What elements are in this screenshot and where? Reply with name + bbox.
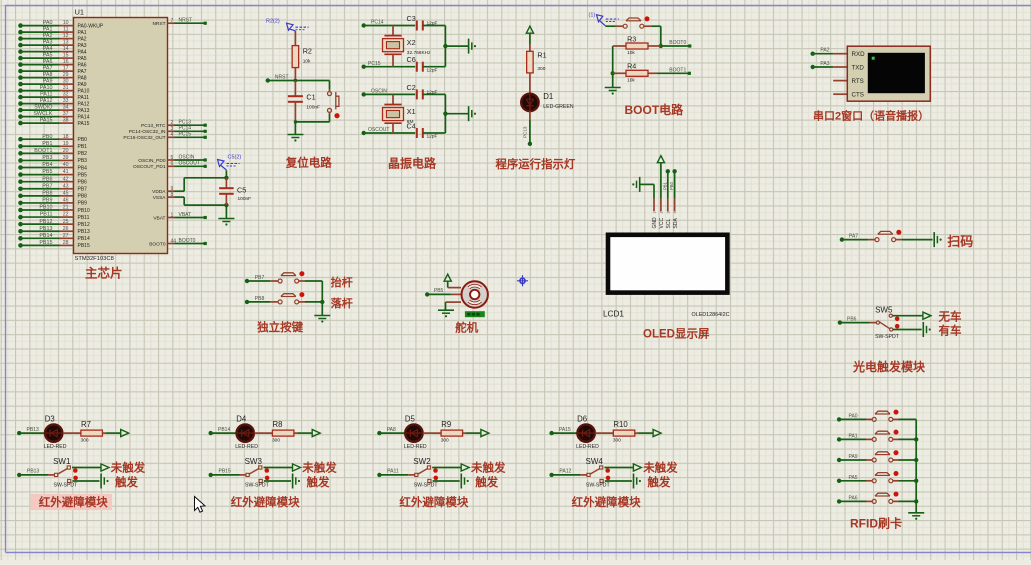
wire RFID PA0 to bus — [899, 418, 917, 420]
wire SW1 triggered — [72, 480, 99, 482]
svg-text:STM32F103C8: STM32F103C8 — [75, 256, 114, 262]
switch SW1 SW-SPDT — [48, 466, 78, 489]
U1 pin 6 OSCOUT_PD1 wire net OSCOUT — [133, 161, 207, 170]
U1 pin 5 OSCIN_PD0 wire net OSCIN — [138, 154, 207, 163]
wire C5 to ground — [225, 205, 227, 218]
svg-text:PC13_RTC: PC13_RTC — [141, 123, 166, 129]
wire D1 to PC13 with net label — [523, 120, 533, 146]
wire net PB14 to LED D4 — [209, 427, 237, 435]
power arrow R8 — [312, 430, 320, 437]
svg-text:1: 1 — [653, 211, 657, 213]
resistor R1 300 — [527, 44, 547, 94]
svg-text:13: 13 — [63, 40, 69, 46]
svg-text:PA6: PA6 — [43, 59, 53, 65]
svg-text:28: 28 — [63, 240, 69, 246]
wire RFID bus — [915, 419, 917, 512]
svg-text:PB8: PB8 — [42, 190, 52, 196]
junction RFID bus PA1 — [914, 437, 918, 441]
terminal cursor — [872, 57, 875, 60]
svg-text:RTS: RTS — [852, 78, 864, 85]
svg-text:PA8: PA8 — [43, 72, 53, 78]
push button RFID PA6 — [866, 492, 899, 504]
svg-text:SWCLK: SWCLK — [33, 111, 53, 117]
wire C3 to rail — [423, 25, 446, 27]
wire SW3 triggered — [264, 480, 291, 482]
svg-text:31: 31 — [63, 85, 69, 91]
svg-text:PA9: PA9 — [43, 79, 53, 85]
junction C1 bottom — [294, 120, 297, 123]
svg-text:OLED12864I2C: OLED12864I2C — [692, 312, 730, 318]
svg-text:19: 19 — [63, 141, 69, 147]
U1 pin 37 PA14 wire net SWCLK — [18, 111, 89, 120]
U1 pin 41 PB5 wire net PB5 — [18, 169, 87, 178]
wire R7 to power arrow — [102, 432, 120, 434]
wire RFID PA6 to bus — [899, 500, 917, 502]
junction node C5 bottom — [224, 203, 228, 207]
svg-text:D3: D3 — [45, 415, 55, 424]
svg-text:未触发: 未触发 — [110, 461, 146, 475]
U1 pin 12 PA2 wire net PA2 — [18, 33, 87, 42]
wire C2 to rail — [423, 93, 446, 95]
net label PC14 — [362, 20, 416, 28]
ground servo — [438, 309, 454, 311]
svg-text:PB13: PB13 — [27, 469, 39, 475]
capacitor C4 12pF — [407, 122, 438, 140]
U1 pin 31 PA10 wire net PA10 — [18, 85, 89, 94]
junction RFID bus PA5 — [914, 479, 918, 483]
svg-text:PB6: PB6 — [78, 179, 88, 185]
wire R10 to power arrow — [635, 432, 653, 434]
svg-text:14: 14 — [63, 46, 69, 52]
svg-text:光电触发模块: 光电触发模块 — [852, 359, 926, 374]
svg-text:R8: R8 — [273, 420, 283, 429]
svg-text:10k: 10k — [627, 77, 635, 83]
wire net PA7 — [840, 234, 869, 242]
svg-text:PA11: PA11 — [40, 92, 52, 98]
virtual terminal screen — [868, 53, 925, 93]
svg-text:PB14: PB14 — [78, 236, 90, 242]
svg-text:落杆: 落杆 — [331, 296, 353, 310]
wire OLED GND pin to ground — [640, 184, 654, 198]
mouse cursor — [195, 497, 206, 513]
svg-text:PA9: PA9 — [78, 82, 87, 88]
wire net PA6 RFID — [837, 495, 866, 503]
resistor R2 — [292, 46, 312, 68]
wire SW5 no-car to power arrow — [893, 315, 923, 317]
ground boot — [605, 87, 621, 89]
svg-text:PA3: PA3 — [43, 40, 53, 46]
U1 pin 33 PA12 wire net PA12 — [18, 98, 89, 107]
capacitor C6 12pF — [407, 55, 438, 73]
svg-text:PB0: PB0 — [78, 137, 88, 143]
wire OLED VCC pin — [660, 163, 662, 199]
junction RFID bus PA6 — [914, 499, 918, 503]
svg-text:VSSA: VSSA — [153, 195, 167, 201]
svg-text:PA11: PA11 — [387, 469, 399, 475]
svg-text:18: 18 — [63, 134, 69, 140]
svg-text:触发: 触发 — [646, 475, 670, 489]
svg-text:PA0: PA0 — [849, 413, 858, 419]
svg-text:PA7: PA7 — [43, 66, 53, 72]
wire C5 top stub — [225, 170, 227, 178]
wire net PA9 RFID — [837, 454, 866, 462]
svg-text:R10: R10 — [613, 420, 628, 429]
svg-text:PB14: PB14 — [218, 427, 230, 433]
U1 pin 19 PB1 wire net PB1 — [18, 141, 87, 150]
wire SW5 car to ground — [893, 329, 922, 331]
U1 pin 29 PA8 wire net PA8 — [18, 72, 87, 81]
svg-text:C5: C5 — [237, 186, 246, 195]
U1 pin 1 VBAT wire net VBAT — [153, 212, 206, 221]
svg-text:红外避障模块: 红外避障模块 — [39, 495, 108, 509]
ground RFID — [908, 512, 924, 514]
svg-text:PB1: PB1 — [662, 181, 667, 190]
wire net PA12 to SW4 — [549, 469, 580, 477]
svg-text:PA2: PA2 — [43, 33, 53, 39]
svg-text:PA3: PA3 — [78, 43, 87, 49]
wire VDDA to C5 — [175, 178, 227, 191]
wire net BOOT0 — [661, 40, 692, 48]
U1 pin 18 PB0 wire net PB0 — [18, 134, 87, 143]
svg-text:BOOT0: BOOT0 — [179, 238, 196, 244]
svg-text:PB14: PB14 — [39, 233, 52, 239]
svg-text:PC14: PC14 — [371, 20, 384, 26]
svg-text:PB4: PB4 — [78, 165, 88, 171]
svg-text:触发: 触发 — [474, 475, 498, 489]
U1 pin 8 VSSA wire — [153, 192, 175, 201]
svg-text:SW4: SW4 — [586, 457, 604, 466]
U1 pin 20 PB2 wire net BOOT1 — [18, 148, 87, 157]
resistor R10 300 — [613, 420, 635, 444]
svg-text:C5(2): C5(2) — [228, 155, 242, 161]
push button RFID PA9 — [866, 450, 899, 462]
ground car — [922, 322, 924, 337]
svg-text:R2(2): R2(2) — [266, 19, 280, 25]
U1 pin 11 PA1 wire net PA1 — [18, 27, 87, 36]
svg-text:PA13: PA13 — [78, 108, 90, 114]
svg-text:PB12: PB12 — [78, 222, 90, 228]
svg-text:OSCIN: OSCIN — [371, 89, 387, 95]
svg-text:PA3: PA3 — [820, 61, 829, 67]
ground left of OLED — [639, 177, 641, 192]
svg-text:独立按键: 独立按键 — [257, 320, 303, 334]
svg-text:RFID刷卡: RFID刷卡 — [850, 516, 902, 531]
power arrow above R1 — [526, 26, 533, 33]
svg-text:PA14: PA14 — [78, 114, 90, 120]
svg-text:BOOT1: BOOT1 — [34, 148, 52, 154]
svg-text:38: 38 — [63, 118, 69, 124]
svg-text:PA5: PA5 — [849, 475, 858, 481]
wire buttons rail — [321, 281, 323, 316]
svg-text:PA8: PA8 — [387, 427, 396, 433]
U1 pin 30 PA9 wire net PA9 — [18, 79, 87, 88]
U1 pin 34 PA13 wire net SWDIO — [18, 105, 89, 114]
svg-text:43: 43 — [63, 183, 69, 189]
wire net PB13 to LED D3 — [17, 427, 45, 435]
svg-text:PA15: PA15 — [78, 121, 90, 127]
junction rail X1 — [443, 112, 447, 116]
switch SW3 SW-SPDT — [240, 466, 270, 489]
wire servo to ground — [445, 302, 447, 310]
svg-text:SW5: SW5 — [875, 306, 893, 315]
svg-text:PA1: PA1 — [43, 27, 53, 33]
wire net PA2 — [811, 48, 834, 56]
junction BOOT0 — [659, 44, 663, 48]
servo display bar — [465, 311, 485, 317]
junction RFID bus PA9 — [914, 458, 918, 462]
svg-text:无车: 无车 — [938, 309, 962, 323]
svg-text:晶振电路: 晶振电路 — [388, 155, 437, 170]
svg-text:3: 3 — [666, 211, 670, 213]
svg-text:PB1: PB1 — [42, 141, 52, 147]
virtual terminal body — [847, 46, 930, 101]
svg-text:PB7: PB7 — [78, 187, 88, 193]
svg-text:LED-RED: LED-RED — [235, 444, 258, 450]
U1 pin 21 PB10 wire net PB10 — [18, 205, 90, 214]
svg-text:PB1: PB1 — [78, 144, 88, 150]
svg-text:32: 32 — [63, 92, 69, 98]
ground scan — [933, 232, 935, 247]
svg-text:串口2窗口（语音播报）: 串口2窗口（语音播报） — [813, 109, 929, 123]
svg-text:SW1: SW1 — [53, 457, 71, 466]
virtual terminal pin names — [852, 51, 866, 98]
svg-text:C1: C1 — [306, 93, 315, 102]
wire boot button to BOOT0 rail — [644, 26, 661, 46]
svg-text:12pF: 12pF — [427, 67, 438, 73]
svg-text:VCC: VCC — [659, 218, 665, 229]
wire net PB5 — [425, 288, 451, 296]
crystal X1 8M — [383, 94, 416, 133]
wire R9 to power arrow — [463, 432, 481, 434]
servo middle lead — [451, 293, 461, 295]
svg-text:C6: C6 — [407, 55, 416, 64]
U1 pin 7 NRST wire net NRST — [152, 18, 206, 27]
svg-text:抬杆: 抬杆 — [331, 275, 353, 289]
svg-text:PA12: PA12 — [559, 469, 571, 475]
svg-text:R9: R9 — [441, 420, 451, 429]
crystal X2 32.768KHz — [383, 26, 432, 67]
svg-text:SWDIO: SWDIO — [34, 105, 52, 111]
svg-text:OSCOUT_PD1: OSCOUT_PD1 — [133, 164, 166, 170]
U1 pin 42 PB6 wire net PB6 — [18, 176, 87, 185]
wire SW3 untriggered — [264, 467, 293, 469]
lead D4 to R8 — [254, 432, 272, 434]
svg-text:29: 29 — [63, 72, 69, 78]
wire scan button to ground — [902, 239, 933, 241]
svg-text:CTS: CTS — [852, 92, 864, 99]
svg-text:PA10: PA10 — [78, 88, 90, 94]
svg-text:20: 20 — [63, 148, 69, 154]
junction buttons rail — [320, 300, 324, 304]
U1 pin 27 PB14 wire net PB14 — [18, 233, 90, 242]
switch SW2 SW-SPDT — [408, 466, 438, 489]
svg-text:PA4: PA4 — [78, 49, 87, 55]
ground buttons — [314, 315, 330, 317]
wire C4 to rail — [423, 132, 446, 134]
svg-text:PA8: PA8 — [78, 75, 87, 81]
svg-text:PB7: PB7 — [255, 275, 265, 281]
push button scan — [868, 230, 902, 242]
U1 pin 9 VDDA wire — [152, 186, 174, 195]
resistor R9 300 — [441, 420, 463, 444]
wire button top — [329, 81, 331, 90]
LED D3 LED-RED — [44, 415, 67, 451]
svg-text:46: 46 — [63, 198, 69, 204]
svg-text:PB12: PB12 — [39, 219, 52, 225]
U1 pin 10 PA0-WKUP wire net PA0 — [18, 20, 104, 29]
svg-text:红外避障模块: 红外避障模块 — [399, 495, 468, 509]
svg-text:C2: C2 — [407, 83, 416, 92]
svg-text:PA11: PA11 — [78, 95, 90, 101]
junction node C5 top — [224, 176, 228, 180]
microcontroller U1 body — [74, 18, 168, 254]
wire net PA15 to LED D6 — [549, 427, 577, 435]
U1 pin 44 BOOT0 wire net BOOT0 — [149, 238, 207, 247]
U1 pin 46 PB9 wire net PB9 — [18, 198, 87, 207]
svg-text:22: 22 — [63, 212, 69, 218]
U1 pin 14 PA4 wire net PA4 — [18, 46, 87, 55]
svg-text:300: 300 — [613, 438, 621, 444]
power arrow R7 — [121, 430, 129, 437]
svg-text:PA15: PA15 — [40, 118, 53, 124]
svg-text:PA2: PA2 — [78, 36, 87, 42]
svg-text:PB13: PB13 — [78, 229, 90, 235]
power arrow OLED VCC — [657, 156, 664, 163]
wire PB7 button to rail — [305, 280, 322, 282]
LED D5 LED-RED — [404, 415, 427, 451]
LED D4 LED-RED — [235, 415, 258, 451]
svg-text:PB9: PB9 — [42, 198, 52, 204]
wire net PA3 — [811, 61, 834, 69]
terminal marker C5(2) — [218, 160, 225, 167]
svg-text:D4: D4 — [236, 415, 247, 424]
capacitor C2 12pF — [407, 83, 438, 100]
svg-text:GND: GND — [652, 217, 658, 229]
wire net PB6 — [838, 317, 870, 325]
svg-text:11: 11 — [63, 27, 68, 33]
push button reset — [328, 89, 340, 118]
svg-text:PB6: PB6 — [847, 317, 857, 323]
ground SW2 — [460, 474, 462, 489]
svg-text:VBAT: VBAT — [179, 212, 192, 218]
svg-text:未触发: 未触发 — [301, 461, 337, 475]
ground X2 — [468, 39, 470, 54]
wire terminal to R2 — [294, 31, 296, 46]
svg-text:PA7: PA7 — [849, 234, 858, 240]
svg-text:触发: 触发 — [114, 475, 138, 489]
U1 pin 43 PB7 wire net PB7 — [18, 183, 87, 192]
wire power to servo top lead — [447, 281, 449, 287]
svg-text:BOOT电路: BOOT电路 — [625, 102, 685, 117]
svg-text:40: 40 — [63, 162, 69, 168]
svg-text:17: 17 — [63, 66, 69, 72]
svg-text:R7: R7 — [81, 420, 91, 429]
svg-text:PB2: PB2 — [78, 151, 88, 157]
wire net BOOT1 — [657, 67, 691, 75]
svg-text:PB3: PB3 — [78, 158, 88, 164]
ground SW4 — [633, 474, 635, 489]
U1 pin 16 PA6 wire net PA6 — [18, 59, 87, 68]
svg-text:PA1: PA1 — [849, 433, 858, 439]
svg-text:SW-SPDT: SW-SPDT — [414, 483, 439, 489]
capacitor C1 — [288, 81, 320, 122]
svg-text:BOOT0: BOOT0 — [149, 241, 166, 247]
svg-text:R1: R1 — [537, 51, 546, 60]
svg-text:PA0-WKUP: PA0-WKUP — [78, 23, 104, 29]
svg-text:PB0: PB0 — [669, 181, 674, 190]
push button RFID PA0 — [866, 410, 899, 422]
svg-text:U1: U1 — [75, 8, 85, 17]
serial terminal pins RXD TXD RTS CTS — [833, 54, 847, 94]
svg-text:12pF: 12pF — [427, 134, 438, 140]
svg-text:BOOT0: BOOT0 — [669, 40, 686, 46]
svg-text:PB5: PB5 — [434, 288, 444, 294]
wire SW2 triggered — [433, 480, 460, 482]
svg-text:未触发: 未触发 — [642, 461, 678, 475]
wire SW2 untriggered — [432, 467, 461, 469]
U1 pin 39 PB3 wire net PB3 — [18, 155, 87, 164]
wire power to R1 — [529, 33, 531, 44]
power arrow SW4 — [633, 464, 641, 471]
junction left rail R4 — [611, 71, 615, 75]
ground SW1 — [100, 474, 102, 489]
svg-text:X2: X2 — [407, 38, 416, 47]
OLED pin labels GND VCC SCL SDA — [652, 217, 679, 229]
svg-text:300: 300 — [272, 438, 280, 444]
svg-text:程序运行指示灯: 程序运行指示灯 — [496, 157, 576, 171]
svg-text:10: 10 — [63, 20, 69, 26]
U1 pin 3 PC14-OSC32_IN wire net PC14 — [129, 126, 207, 135]
svg-text:OLED显示屏: OLED显示屏 — [643, 328, 710, 341]
svg-text:SDA: SDA — [673, 218, 679, 229]
U1 pin 26 PB13 wire net PB13 — [18, 226, 90, 235]
switch SW5 SW-SPDT — [870, 314, 900, 340]
svg-text:39: 39 — [63, 155, 69, 161]
svg-text:PB4: PB4 — [42, 162, 52, 168]
svg-text:SCL: SCL — [666, 219, 672, 229]
resistor R4 10k — [613, 61, 657, 83]
svg-text:NRST: NRST — [275, 74, 289, 80]
wire net PB8 — [245, 296, 270, 304]
svg-text:PC13: PC13 — [523, 126, 528, 138]
wire net PA0 RFID — [837, 413, 866, 421]
wire right rail X2 — [444, 26, 446, 67]
svg-text:8M: 8M — [407, 119, 414, 125]
svg-text:100nF: 100nF — [238, 196, 252, 202]
svg-text:PB15: PB15 — [219, 469, 231, 475]
svg-text:21: 21 — [63, 205, 69, 211]
wire NRST node — [266, 78, 330, 82]
power arrow SW2 — [461, 464, 469, 471]
svg-text:PC15: PC15 — [179, 132, 192, 138]
svg-text:LED-GREEN: LED-GREEN — [543, 104, 574, 110]
wire C1 to ground — [294, 122, 296, 135]
lead R2 bottom — [294, 68, 296, 81]
svg-text:PB5: PB5 — [42, 169, 52, 175]
svg-text:扫码: 扫码 — [947, 234, 973, 249]
wire VSSA to C5 — [175, 197, 227, 205]
wire terminal to boot button — [605, 25, 623, 27]
svg-text:12: 12 — [63, 33, 69, 39]
power arrow servo — [444, 274, 451, 281]
svg-text:NRST: NRST — [179, 18, 193, 24]
svg-text:32.768KHz: 32.768KHz — [407, 50, 431, 56]
svg-text:37: 37 — [63, 111, 69, 117]
wire SW1 untriggered — [72, 467, 101, 469]
U1 pin 40 PB4 wire net PB4 — [18, 162, 87, 171]
svg-text:2: 2 — [660, 211, 664, 213]
svg-text:未触发: 未触发 — [470, 461, 506, 475]
